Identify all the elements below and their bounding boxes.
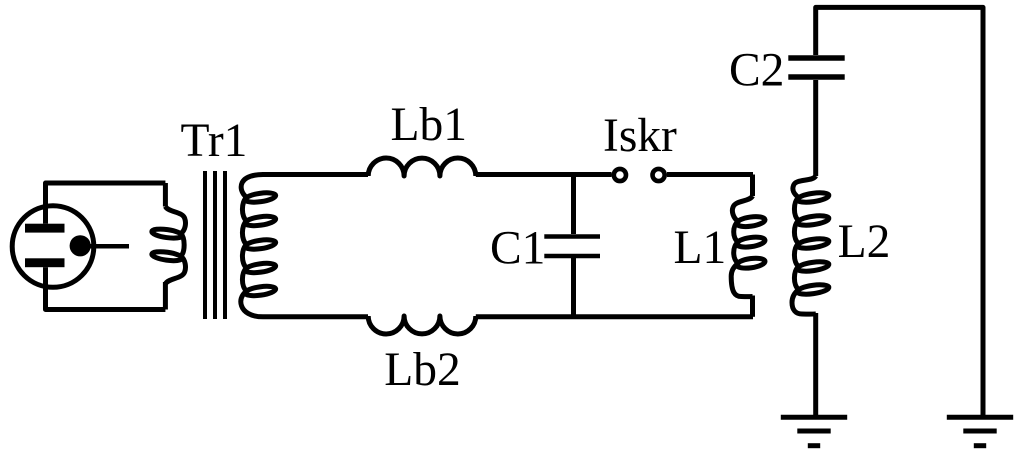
svg-text:Lb1: Lb1 xyxy=(391,99,468,151)
label Lb1 xyxy=(391,99,468,151)
svg-text:L2: L2 xyxy=(838,216,891,268)
plug contact bottom xyxy=(25,258,65,288)
wire xyxy=(476,314,753,319)
label C1 xyxy=(490,223,545,275)
node junction top xyxy=(571,175,576,235)
svg-text:Lb2: Lb2 xyxy=(384,344,461,396)
label Iskr xyxy=(603,110,677,162)
wire xyxy=(263,314,368,319)
transformer Tr1 core xyxy=(205,171,225,319)
label Lb2 xyxy=(384,344,461,396)
svg-text:Tr1: Tr1 xyxy=(181,115,248,167)
svg-text:C2: C2 xyxy=(729,45,784,97)
wire xyxy=(262,172,368,177)
inductor Lb2 xyxy=(368,316,476,334)
wire xyxy=(816,7,983,415)
inductor L1 xyxy=(731,175,765,317)
label L2 xyxy=(838,216,891,268)
svg-text:C1: C1 xyxy=(490,223,545,275)
label Tr1 xyxy=(181,115,248,167)
wire xyxy=(667,172,753,177)
plug contact top xyxy=(25,205,65,233)
plug earth pin xyxy=(70,235,129,256)
wire xyxy=(46,183,166,205)
wire xyxy=(476,172,612,177)
inductor Lb1 xyxy=(368,158,476,176)
label C2 xyxy=(729,45,784,97)
wire xyxy=(46,288,166,310)
spark gap Iskr electrode left xyxy=(614,169,626,181)
ground xyxy=(947,417,1013,445)
inductor L2 xyxy=(792,80,829,415)
transformer Tr1 secondary coil xyxy=(241,175,276,317)
plug (mains connector) xyxy=(12,206,94,288)
svg-text:L1: L1 xyxy=(674,222,727,274)
svg-text:Iskr: Iskr xyxy=(603,110,677,162)
capacitor C2 xyxy=(788,58,844,77)
spark gap Iskr electrode right xyxy=(653,169,665,181)
transformer Tr1 primary coil xyxy=(151,183,185,310)
capacitor C1 xyxy=(544,237,600,318)
ground xyxy=(781,417,847,445)
label L1 xyxy=(674,222,727,274)
